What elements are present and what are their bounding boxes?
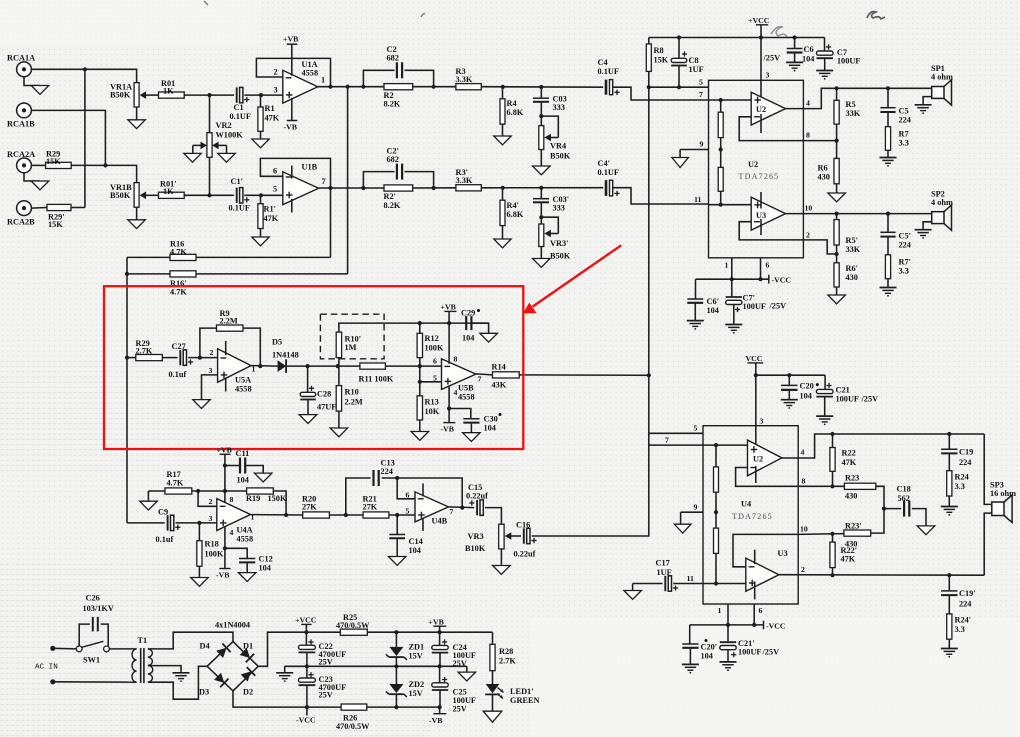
wire AC live to SW1 (53, 647, 76, 650)
svg-text:224: 224 (959, 600, 971, 609)
ground (R13) (411, 432, 429, 441)
label B50K (VR1B) (110, 191, 131, 200)
svg-text:4 ohm: 4 ohm (931, 73, 953, 82)
capacitor C03 (533, 98, 549, 102)
label 104 (C29) (462, 334, 474, 343)
svg-text:U3: U3 (778, 549, 788, 558)
label R1' (264, 205, 276, 214)
label C20' (701, 643, 718, 652)
wire C03 bottom (540, 102, 542, 126)
svg-text:1UF: 1UF (657, 568, 672, 577)
svg-text:C20': C20' (701, 643, 718, 652)
zener ZD2 (386, 666, 407, 707)
svg-text:R23': R23' (845, 522, 862, 531)
ground (VR2 right) (218, 153, 235, 162)
node junction C13 tap (344, 513, 348, 517)
node junction pin7 divider (U4) (714, 443, 718, 447)
pin 3 (U2) (766, 71, 770, 80)
node junction standby (647, 85, 651, 89)
resistor R6 (834, 141, 839, 184)
label 2.7K (R28) (499, 657, 516, 666)
wire C19' to R24' (948, 595, 950, 614)
wire C1 to U1A pin3 (244, 94, 282, 96)
capacitor C19 (941, 449, 957, 453)
svg-text:C17: C17 (656, 559, 670, 568)
svg-text:C6': C6' (707, 297, 719, 306)
node junction -VCC (305, 705, 309, 709)
label 430 (R23) (845, 492, 857, 501)
node junction C20 tap (787, 373, 791, 377)
wire AC neutral to T1 (53, 681, 137, 683)
resistor R22' (830, 534, 835, 568)
svg-text:R5: R5 (846, 100, 856, 109)
svg-text:C21: C21 (836, 386, 850, 395)
pin 3 (U4A) (209, 514, 213, 523)
svg-text:-VB: -VB (429, 716, 442, 725)
wire U4B output (448, 506, 474, 509)
label 4700UF (C23) (319, 683, 347, 692)
ground (C6') (687, 321, 704, 330)
svg-text:333: 333 (553, 103, 565, 112)
wire R10 bottom (338, 411, 340, 428)
label U4 (block) (741, 500, 751, 509)
op-amp U2 internal A (751, 92, 785, 125)
pin 5 (U4) (694, 424, 698, 433)
power +VCC symbol (PSU) (295, 616, 317, 633)
capacitor C4 (606, 80, 620, 95)
svg-text:27K: 27K (302, 503, 317, 512)
label R12 (425, 334, 439, 343)
wire R16' left (127, 273, 170, 275)
potentiometer VR4 (539, 126, 544, 150)
label R24' (955, 616, 972, 625)
svg-text:100UF: 100UF (743, 302, 767, 311)
label 1K (R01') (163, 187, 174, 196)
pin 6 (U1B) (273, 167, 277, 176)
node junction +VCC pin3 (759, 35, 763, 39)
node junction C8 rail (677, 35, 681, 39)
svg-text:C9: C9 (158, 508, 168, 517)
label R22' (841, 546, 858, 555)
node junction C22 top (304, 630, 308, 634)
node junction feedback out (284, 513, 288, 517)
node junction C2' branch (361, 186, 365, 190)
capacitor C21 (816, 375, 833, 396)
pin 3 (U4) (760, 417, 764, 426)
svg-text:10: 10 (800, 525, 808, 534)
node junction R9 tap (198, 356, 202, 360)
node junction R4 top (501, 85, 505, 89)
resistor R23 (844, 483, 875, 489)
label 8.2K (R2') (384, 201, 401, 210)
svg-text:R7: R7 (899, 130, 909, 139)
node junction pin6 node (752, 623, 756, 627)
label R19 150K (246, 494, 287, 503)
label /25V (763, 54, 781, 63)
label C25 (453, 688, 467, 697)
label +VB (U1A) (283, 35, 298, 44)
scan smudge top right (867, 12, 885, 19)
wire RCA1A to VR1A (31, 69, 136, 82)
svg-text:C11: C11 (236, 449, 250, 458)
potentiometer VR3' (539, 224, 544, 247)
wire C7' top (731, 279, 733, 297)
pin 3 (U5A) (209, 366, 213, 375)
resistor R5 (834, 88, 839, 124)
power -VCC symbol (U2) (769, 275, 792, 285)
svg-text:2: 2 (806, 231, 810, 240)
svg-text:104: 104 (802, 55, 814, 64)
node junction C2 branch (361, 85, 365, 89)
label R26 (343, 714, 357, 723)
wire C20 bottom (788, 390, 790, 400)
label 4 ohm (SP1) (931, 73, 953, 82)
resistor R01' (159, 192, 185, 198)
capacitor C5 (880, 108, 895, 112)
wire C19' top (948, 575, 950, 591)
wire R7 bottom (887, 150, 889, 157)
label 100UF (C24) (453, 651, 477, 660)
scan smudge mid right (771, 27, 787, 37)
resistor R29 (46, 162, 72, 168)
wire C23 bottom (306, 685, 308, 707)
diode D4 (216, 644, 230, 659)
resistor R29' (47, 204, 71, 210)
node junction C5' top (886, 212, 890, 216)
wire C7 top (824, 38, 826, 52)
label U2 (block) (748, 160, 758, 169)
label SP2 (931, 190, 945, 199)
node junction pin6/-VCC (758, 277, 762, 281)
svg-text:27K: 27K (363, 503, 378, 512)
svg-text:4558: 4558 (302, 69, 319, 78)
potentiometer VR1B (134, 183, 158, 208)
svg-text:0.1UF: 0.1UF (598, 168, 619, 177)
label C14 (409, 537, 423, 546)
power +VB stub (U1A) (287, 44, 298, 76)
label TDA7265 (U4) (732, 512, 773, 521)
label 224 (C13) (381, 467, 393, 476)
label 1N4148 (272, 351, 299, 360)
svg-text:RCA1A: RCA1A (7, 54, 35, 63)
label 3.3 (R24) (955, 482, 965, 491)
wire R5 bottom (836, 124, 838, 141)
resistor R14 (493, 372, 520, 378)
label 104 (C20) (800, 392, 812, 401)
wire R01 to C1 (184, 94, 234, 96)
wire pin2 jog (198, 491, 217, 506)
svg-text:4558: 4558 (235, 385, 252, 394)
ground (C18) (917, 526, 935, 535)
label 15K (46, 157, 61, 166)
pin 2 (U5A) (210, 348, 214, 357)
wire U2 output pin4 (786, 88, 932, 108)
label 4.7K (R16) (170, 248, 187, 257)
svg-text:15K: 15K (48, 220, 63, 229)
svg-text:4: 4 (801, 448, 805, 457)
node junction C19 top (947, 432, 951, 436)
wire C03' bottom (540, 202, 542, 226)
wire C8 bottom (678, 66, 680, 88)
svg-text:9: 9 (700, 140, 704, 149)
wire R2 to R3 (413, 86, 456, 88)
svg-text:R1: R1 (265, 104, 275, 113)
label 100UF (C7) (837, 57, 861, 66)
label 33K (R5') (846, 245, 861, 254)
svg-text:U4: U4 (741, 500, 751, 509)
label 104 (C14) (409, 546, 421, 555)
wire C11 left (225, 465, 240, 467)
pin 6 (U4B) (406, 491, 410, 500)
wire R16' right (196, 273, 348, 275)
capacitor C23 (299, 666, 316, 685)
wire R17 to R19 (192, 490, 247, 492)
wire C4 to pin7 (613, 87, 708, 100)
pin 8 (U4A) (230, 495, 234, 504)
ground (R17) (140, 491, 158, 510)
label C1' (231, 177, 243, 186)
svg-text:6: 6 (759, 606, 763, 615)
op-amp U4B (415, 492, 448, 522)
potentiometer VR3 (499, 524, 504, 549)
label 16 ohm (SP3) (990, 489, 1016, 498)
svg-text:C5: C5 (899, 107, 909, 116)
label R17 (167, 470, 181, 479)
wire C19 top (948, 434, 950, 449)
svg-text:U4A: U4A (237, 526, 253, 535)
ground (R6') (828, 295, 846, 304)
svg-text:3.3: 3.3 (899, 267, 909, 276)
label U3 (amp) (756, 211, 766, 220)
svg-text:4.7K: 4.7K (170, 288, 187, 297)
node junction C13 out (460, 506, 464, 510)
resistor R10 (336, 366, 341, 411)
label 470/0.5W (R25) (336, 621, 370, 630)
label 1UF (C17) (657, 568, 672, 577)
node junction ZD1 top (394, 630, 398, 634)
label 430 (R6') (846, 273, 858, 282)
wire VR4 wiper loop (541, 116, 558, 141)
pin 8 (U5B) (454, 355, 458, 364)
resistor R29 (2.7K) (136, 355, 163, 361)
terminal AC live (50, 646, 55, 651)
node junction pin7 divider (719, 98, 723, 102)
pin 5 (U5B) (433, 374, 437, 383)
svg-text:R6: R6 (818, 164, 828, 173)
resistor R25 (340, 629, 367, 635)
node junction R22' bottom (830, 573, 834, 577)
svg-text:C19: C19 (959, 448, 973, 457)
node junction pin6 tap (395, 476, 399, 480)
wire R20 to R21 (329, 514, 363, 516)
wire R14 to standby rail (519, 374, 649, 376)
wire U3 feedback (739, 222, 803, 240)
svg-text:2.7K: 2.7K (136, 346, 153, 355)
label C18 (897, 485, 911, 494)
svg-text:5: 5 (406, 507, 410, 516)
svg-text:1N4148: 1N4148 (272, 351, 299, 360)
wire R1' bottom (260, 229, 262, 238)
wire pin9 (U4) (681, 511, 703, 513)
wire C12 bottom (246, 562, 248, 572)
resistor R7' (885, 255, 890, 279)
wire C11 right (245, 466, 263, 474)
svg-text:224: 224 (899, 241, 911, 250)
wire VCC rail (U4) (756, 374, 825, 376)
svg-text:B50K: B50K (550, 152, 571, 161)
label 104 (C12) (259, 564, 271, 573)
svg-text:GREEN: GREEN (510, 696, 540, 705)
label 104 (C6') (707, 306, 719, 315)
svg-text:3: 3 (209, 366, 213, 375)
svg-text:R10: R10 (345, 388, 359, 397)
wire VR1B bottom (136, 207, 138, 220)
wire C2' branch (363, 172, 394, 188)
svg-text:224: 224 (959, 458, 971, 467)
label TDA7265 (U2) (739, 172, 780, 181)
wire R3 to C4 (481, 86, 603, 89)
wire R12 bottom (419, 358, 421, 382)
label R23 (845, 474, 859, 483)
svg-text:R13: R13 (425, 398, 439, 407)
svg-text:C16: C16 (516, 521, 530, 530)
label 100UF (C21') (738, 648, 762, 657)
ground (pin9 U4) (674, 512, 691, 533)
wire secondary center tap (148, 666, 181, 673)
label R4' (507, 201, 519, 210)
svg-text:AC IN: AC IN (35, 663, 58, 671)
label R10 (345, 388, 359, 397)
label 4x1N4004 (215, 621, 250, 630)
ground (RCA1A) (24, 77, 49, 95)
svg-text:25V: 25V (319, 691, 333, 700)
ground (R1') (252, 237, 269, 246)
label 33K (R5) (846, 109, 861, 118)
connector RCA2B (17, 201, 32, 216)
svg-text:15K: 15K (46, 157, 61, 166)
svg-text:+VB: +VB (283, 35, 298, 44)
wire RCA1B (31, 110, 105, 165)
svg-text:C19': C19' (959, 589, 976, 598)
svg-text:TDA7265: TDA7265 (732, 512, 773, 521)
label 4.7K (R16') (170, 288, 187, 297)
svg-text:C27: C27 (172, 342, 186, 351)
pin 10 (U2) (805, 204, 813, 213)
wire C19 to R24 (948, 453, 950, 470)
node junction R16' tap (125, 272, 129, 276)
label 1UF (C8) (689, 65, 704, 74)
svg-text:-VB: -VB (216, 571, 229, 580)
svg-text:0.1UF: 0.1UF (598, 67, 619, 76)
svg-text:430: 430 (818, 173, 830, 182)
svg-text:R23: R23 (845, 474, 859, 483)
node junction R10 tap (336, 364, 340, 368)
wire U2 feedback (U4) (736, 468, 799, 487)
ground (C11) (254, 473, 272, 482)
svg-text:8: 8 (230, 495, 234, 504)
power stub (amp A bottom) (760, 114, 762, 133)
wire pin11 internal (709, 204, 752, 206)
svg-text:VR3: VR3 (468, 532, 484, 541)
wire C6 top (794, 38, 796, 49)
resistor R01 (159, 92, 185, 98)
svg-text:U4B: U4B (432, 517, 448, 526)
svg-text:6.8K: 6.8K (507, 210, 524, 219)
svg-text:R22: R22 (842, 449, 856, 458)
capacitor C2 (397, 62, 402, 78)
wire SP1 ground (923, 97, 932, 105)
svg-text:TDA7265: TDA7265 (739, 172, 780, 181)
node junction U1A output drop (346, 85, 350, 89)
wire C18 left (884, 508, 901, 510)
wire pin10 to R22'/R23' (798, 533, 844, 536)
wire C03' top (540, 188, 542, 199)
wire C6' top (695, 279, 697, 299)
label R2' (384, 192, 396, 201)
node junction R5/R6 (835, 139, 839, 143)
label R11 100K (359, 375, 394, 384)
wire C2 branch (363, 70, 394, 86)
node junction +VB rail (447, 321, 451, 325)
label VR4 (550, 142, 566, 151)
ground (R7') (880, 288, 897, 297)
svg-text:430: 430 (846, 273, 858, 282)
wire R7' bottom (887, 279, 889, 288)
wire -VCC node (U4) (690, 624, 764, 626)
ground (U5A pin3) (193, 400, 210, 409)
node junction VR3' wiper (539, 215, 543, 219)
svg-text:47K: 47K (841, 555, 856, 564)
svg-text:25V: 25V (453, 705, 467, 714)
pin 3 stub (U4) (755, 375, 757, 451)
resistor R3 (456, 84, 481, 90)
svg-text:100UF: 100UF (837, 57, 861, 66)
capacitor C29 (466, 316, 471, 330)
wire U3 output pin2 (U4) (779, 574, 984, 577)
resistor R26 (341, 704, 367, 710)
svg-text:SW1: SW1 (83, 656, 100, 665)
node junction R18 top (197, 521, 201, 525)
wire VR2 wiper left (193, 142, 207, 154)
label 27K (R21) (363, 503, 378, 512)
wire VR3 wiper (505, 532, 521, 540)
capacitor C19' (941, 591, 957, 595)
label C7' (743, 294, 755, 303)
label 682 (C2') (387, 155, 399, 164)
svg-text:224: 224 (899, 116, 911, 125)
svg-text:333: 333 (553, 204, 565, 213)
wire C30 branch (449, 409, 471, 419)
wire mid rail (285, 665, 467, 667)
label RCA2B (7, 218, 35, 227)
pin 6 (U4) (759, 606, 763, 615)
wire C17 to pin11 (673, 583, 703, 585)
wire C5' to R7' (887, 237, 889, 255)
wire U4A output (250, 514, 302, 516)
wire R24 bottom (948, 496, 950, 507)
pin 8 (U4) (802, 477, 806, 486)
svg-text:/25V: /25V (762, 648, 780, 657)
label 10K (R13) (425, 407, 440, 416)
pin 2 (U2) (806, 231, 810, 240)
capacitor C1' (237, 188, 250, 203)
label U1A (302, 60, 318, 69)
ground (C7') (725, 325, 742, 334)
ground (R7) (880, 158, 897, 167)
wire R4' bottom (502, 226, 504, 239)
label 4.7K (R17) (167, 479, 184, 488)
capacitor C18 (904, 501, 909, 517)
